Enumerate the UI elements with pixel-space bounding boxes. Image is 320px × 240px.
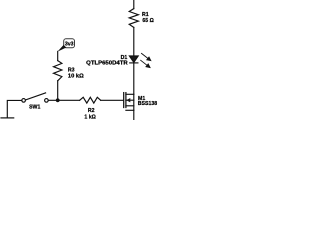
svg-text:3v3: 3v3 bbox=[65, 42, 74, 48]
wire: R2 to M1 gate bbox=[101, 99, 123, 101]
resistor R3 bbox=[54, 61, 62, 81]
wire: top rail into R1 bbox=[133, 0, 135, 9]
switch SW1 bbox=[22, 93, 48, 102]
svg-text:R3: R3 bbox=[68, 67, 75, 73]
ground bbox=[1, 117, 14, 119]
LED D1 bbox=[129, 56, 138, 63]
resistor R2 bbox=[80, 97, 101, 103]
svg-text:BSS138: BSS138 bbox=[138, 101, 157, 107]
svg-text:65 Ω: 65 Ω bbox=[142, 18, 153, 24]
LED D1 light arrows bbox=[141, 53, 151, 67]
wire: R1 to D1 bbox=[133, 27, 135, 56]
wire: D1 to M1 drain bbox=[133, 63, 135, 94]
wire: 3v3 flag to R3 top bbox=[57, 51, 59, 60]
wire: R3 to junction node bbox=[57, 81, 59, 101]
power flag 3v3 bbox=[58, 39, 75, 52]
transistor M1 bbox=[124, 93, 134, 111]
svg-text:1 kΩ: 1 kΩ bbox=[84, 115, 95, 120]
svg-text:R2: R2 bbox=[88, 108, 95, 114]
wire: switch to R2 bbox=[48, 99, 79, 101]
svg-text:SW1: SW1 bbox=[29, 104, 40, 110]
resistor R1 bbox=[129, 9, 138, 28]
junction node bbox=[56, 98, 60, 102]
wire: left terminal to ground bbox=[7, 100, 21, 118]
wire: M1 source to bottom edge bbox=[133, 110, 135, 120]
svg-text:QTLP650D4TR: QTLP650D4TR bbox=[86, 61, 128, 67]
svg-text:10 kΩ: 10 kΩ bbox=[68, 74, 84, 80]
svg-text:R1: R1 bbox=[142, 12, 149, 18]
